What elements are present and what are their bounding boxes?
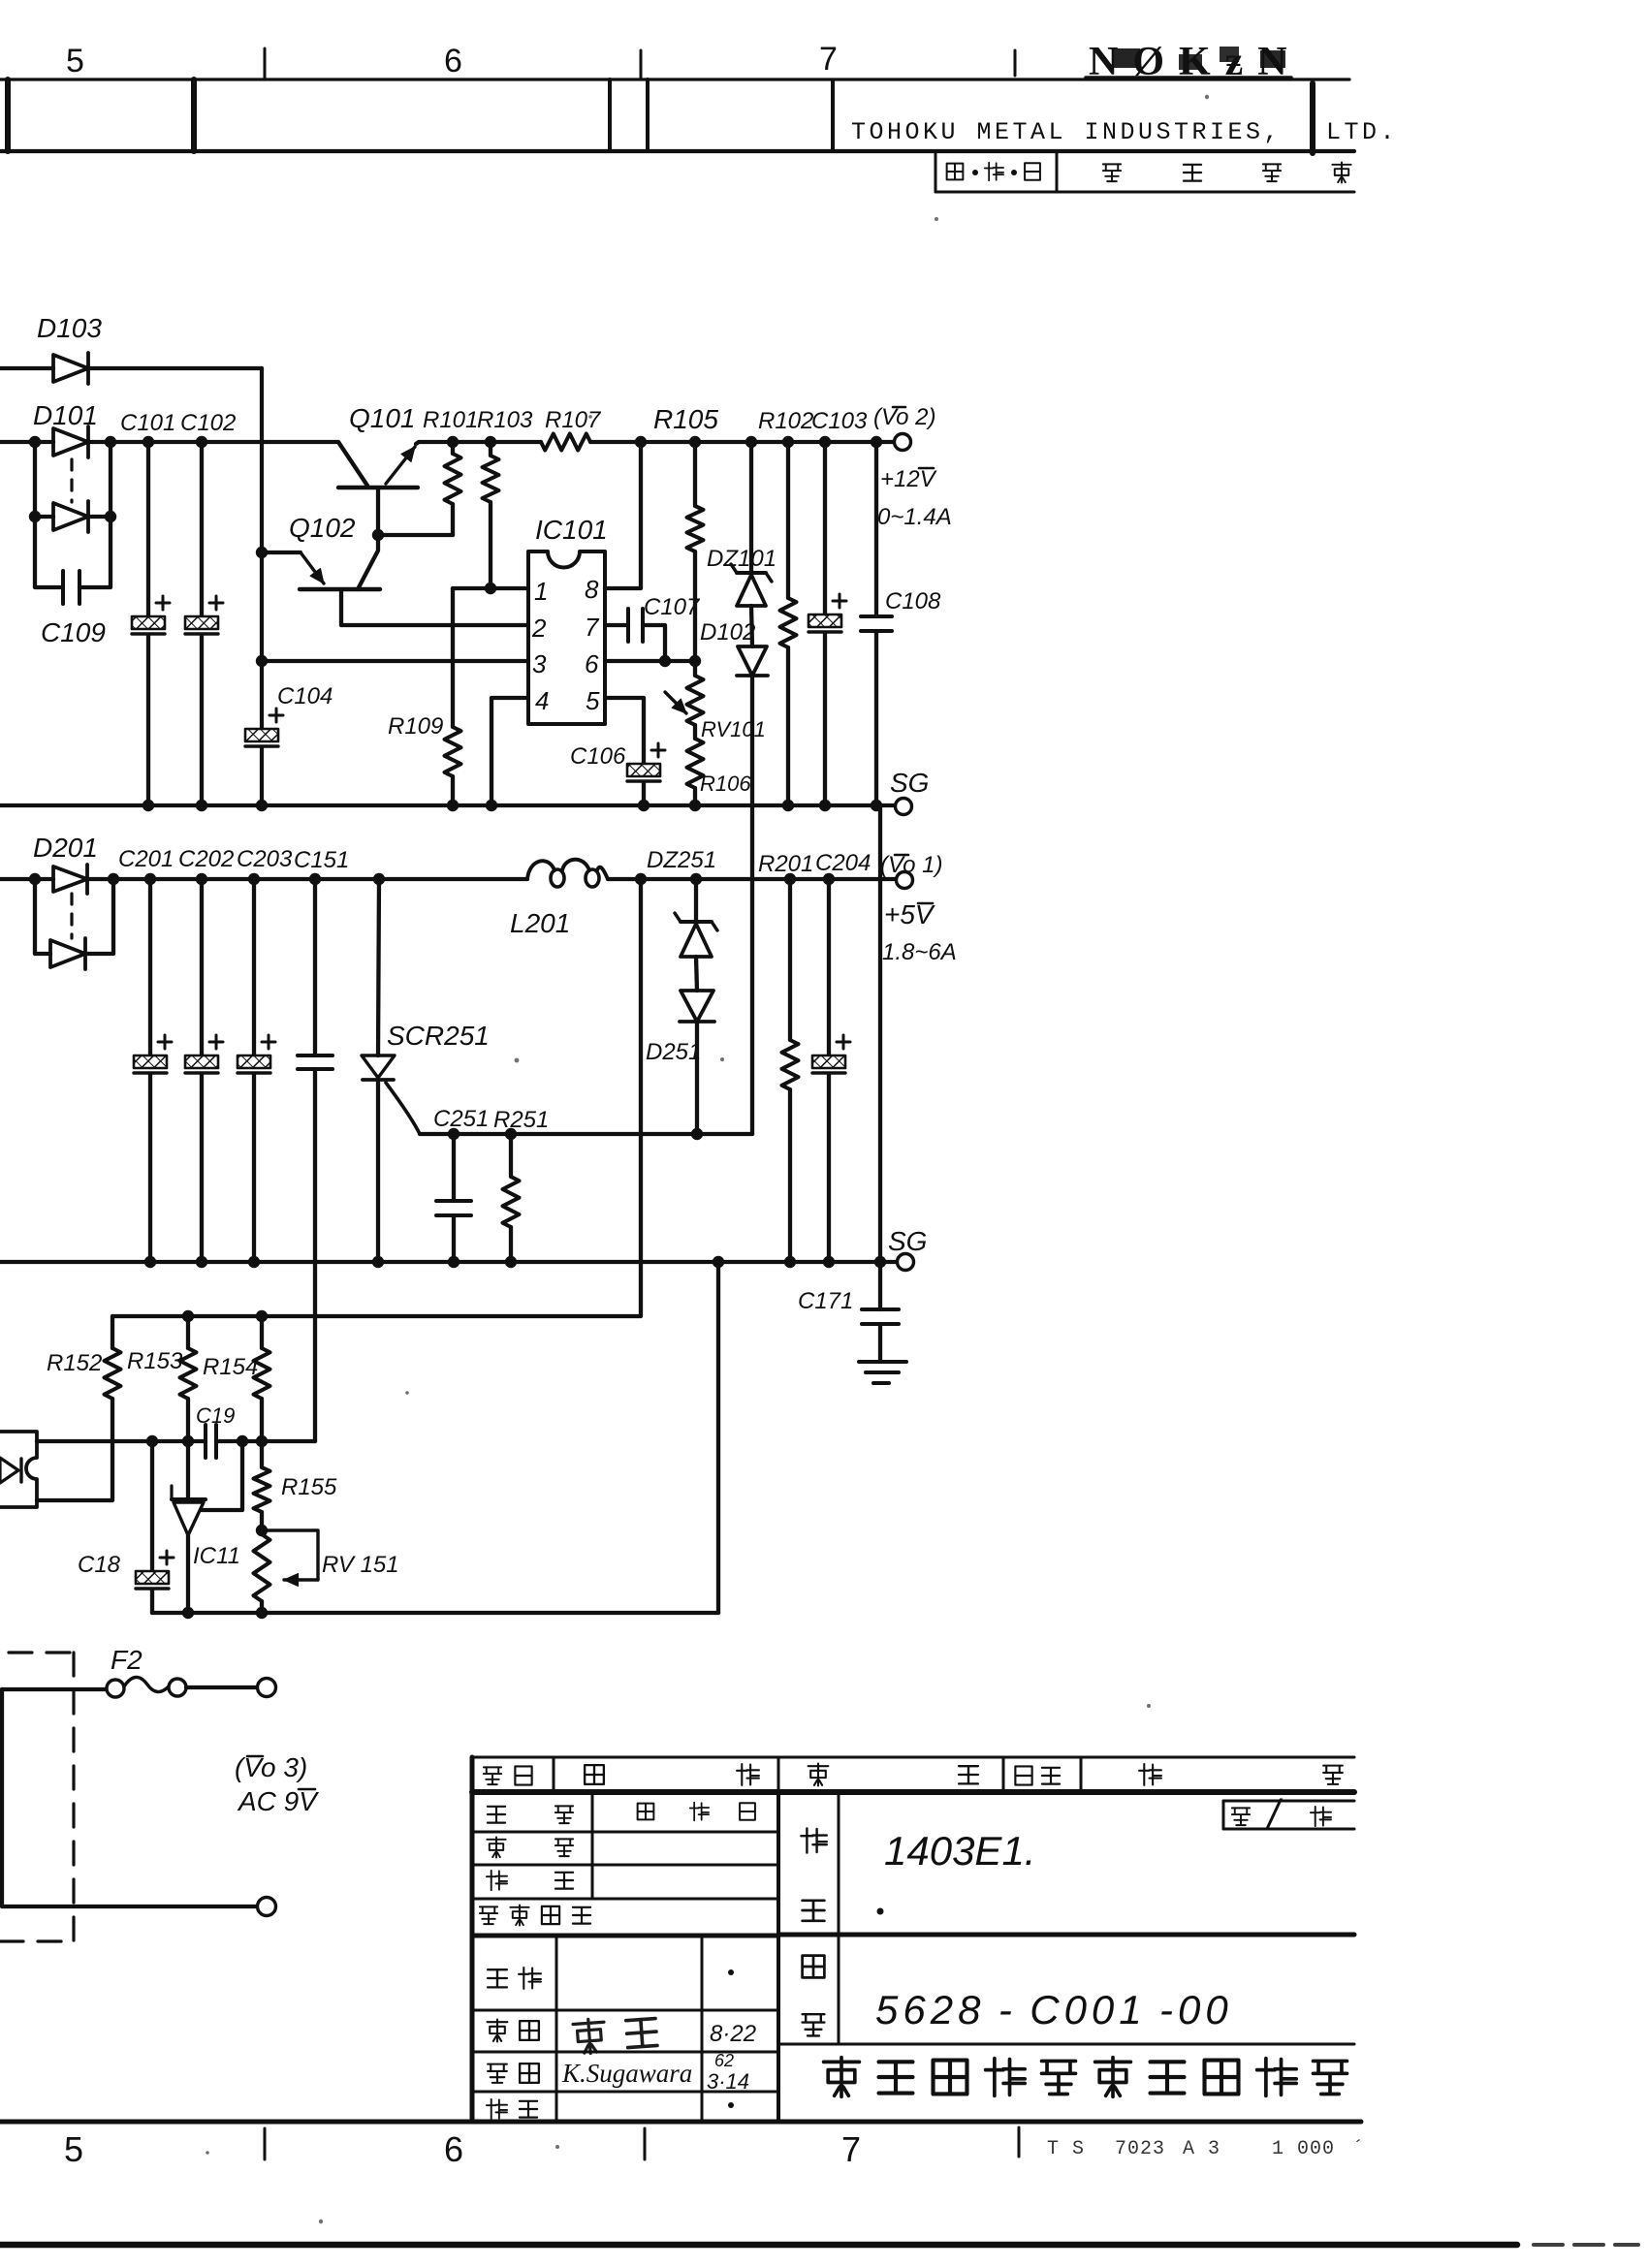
svg-text:D101: D101 [33, 400, 98, 430]
svg-text:6: 6 [444, 2129, 463, 2169]
svg-text:+12V: +12V [880, 466, 937, 492]
svg-text:(Vo 3): (Vo 3) [235, 1752, 307, 1782]
wire: IC pin4 to SG [491, 698, 528, 805]
svg-text:R152: R152 [47, 1350, 102, 1376]
company name 東北金属工業株式会社 [824, 2058, 860, 2096]
row labels 発行/年月日 [488, 1807, 505, 1823]
svg-text:C103: C103 [811, 408, 868, 434]
svg-text:6: 6 [585, 649, 599, 678]
capacitor C109 [61, 571, 65, 604]
sheet frame bottom line [0, 2120, 1361, 2125]
svg-text:R106: R106 [700, 772, 751, 796]
wire: C151 bottom down to feedback node (crosses buses) [313, 1069, 317, 1441]
header band bottom line [0, 149, 1354, 153]
sheet frame: header band top line [0, 78, 1349, 80]
wire: Q101 base junction to R101 bottom [378, 533, 453, 537]
svg-text:R153: R153 [127, 1348, 183, 1374]
wire: IC pin6 to R105 junction [605, 659, 695, 663]
svg-text:3: 3 [532, 649, 547, 678]
logo underline [1086, 76, 1291, 79]
検図 [488, 2020, 508, 2042]
revision strip headers (year-month-day / revision columns) [947, 164, 964, 180]
footer tick [1018, 2127, 1021, 2157]
+5V rail to L201 [87, 877, 527, 881]
title block outer [470, 1792, 475, 2122]
svg-text:5: 5 [586, 686, 600, 715]
svg-text:8: 8 [585, 575, 599, 604]
column tick [1014, 50, 1017, 76]
svg-text:IC101: IC101 [535, 515, 608, 545]
svg-text:C108: C108 [885, 588, 941, 614]
capacitor C101 line [146, 442, 150, 616]
wire: D102 down to SCR gate wire (crosses SG and +5V rails) [750, 676, 754, 1134]
wire: raw dc input to D103 [0, 366, 53, 370]
svg-text:T S 7023 A 3: T S 7023 A 3 [1047, 2138, 1220, 2160]
svg-text:R155: R155 [281, 1474, 337, 1500]
footer tick [644, 2128, 647, 2159]
column tick [264, 48, 267, 78]
svg-text:4: 4 [535, 686, 549, 715]
svg-text:D102: D102 [700, 619, 755, 646]
node C101 top [143, 436, 154, 448]
left return wire [2, 1689, 258, 1906]
parts-list row [472, 1756, 1354, 1759]
scan bottom edge line [0, 2242, 1517, 2249]
wire: IC pin8 up to +12V rail [605, 442, 641, 588]
SG bus (lower) [0, 1260, 897, 1264]
svg-text:RV101: RV101 [701, 717, 766, 741]
wire: raw dc input 2 to D101 [0, 440, 53, 444]
transformer dashed boundary [9, 1651, 71, 1654]
svg-text:1 000 ´: 1 000 ´ [1272, 2138, 1365, 2160]
SCR cathode to SG bus [376, 1080, 380, 1262]
svg-text:7: 7 [819, 41, 838, 78]
photocoupler (clipped at sheet edge) [0, 1432, 37, 1507]
feedback node wire [37, 1439, 206, 1443]
+5V raw rail from transformer [0, 877, 53, 881]
svg-text:R103: R103 [477, 407, 533, 433]
scan speckles [1205, 95, 1209, 99]
svg-text:D103: D103 [37, 313, 102, 343]
svg-text:0~1.4A: 0~1.4A [877, 504, 952, 530]
svg-text:R107: R107 [545, 407, 602, 433]
svg-text:R102: R102 [758, 408, 813, 434]
revision strip box [935, 151, 937, 192]
bottom control rail [152, 1611, 718, 1615]
diode D201 lower half [50, 940, 85, 967]
svg-text:R101: R101 [423, 407, 478, 433]
name column [838, 1792, 840, 2044]
node: +5V to sense line [635, 873, 647, 885]
svg-text:C106: C106 [570, 743, 626, 770]
left column rows [472, 1831, 778, 1834]
svg-text:D201: D201 [33, 833, 98, 863]
diode D101 (dual diode, upper) [53, 428, 88, 456]
svg-text:7: 7 [841, 2129, 861, 2169]
svg-text:C204: C204 [815, 850, 871, 876]
svg-text:5628 - C001 -00: 5628 - C001 -00 [875, 1987, 1233, 2032]
svg-text:7: 7 [585, 613, 600, 642]
wire: IC pin2 [341, 623, 528, 627]
svg-text:C202: C202 [178, 846, 234, 872]
diode D201 (dual, upper) [53, 866, 87, 892]
svg-text:C251: C251 [433, 1106, 489, 1132]
wire: D103 cathode to main bus corner [88, 366, 262, 370]
SCR gate lead [386, 1083, 420, 1134]
node: bus to Q102 base wire [256, 547, 268, 558]
svg-text:R251: R251 [493, 1107, 549, 1133]
earth ground [859, 1360, 906, 1364]
IC11 ref lead to C19 node [202, 1441, 242, 1510]
設計 [487, 2099, 507, 2119]
wire: main +raw rail to Q101 collector [88, 440, 338, 444]
svg-text:DZ251: DZ251 [647, 847, 716, 873]
svg-text:C101: C101 [120, 410, 175, 436]
svg-text:SG: SG [890, 768, 929, 798]
node: bus to IC pin3 wire [256, 655, 268, 667]
wire: top +12V rail with R107 [419, 440, 541, 444]
Q102 base lead to IC pin2 [339, 589, 343, 625]
wire: IC pin3 [262, 659, 528, 663]
svg-text:L201: L201 [510, 908, 570, 938]
単位 [487, 1837, 505, 1857]
承認 [488, 1969, 507, 1987]
svg-text:5: 5 [66, 43, 84, 79]
RV101 wiper arrow [665, 692, 686, 713]
diode D103 [53, 355, 88, 382]
capacitor C104 (electrolytic) [245, 729, 278, 741]
svg-text:C107: C107 [644, 594, 701, 620]
SG rail down right side [878, 805, 882, 1262]
Q101 base lead [376, 488, 380, 535]
svg-text:AC 9V: AC 9V [237, 1786, 319, 1816]
svg-text:62: 62 [714, 2051, 734, 2070]
svg-text:Q102: Q102 [289, 513, 356, 543]
一般公差 [480, 1906, 497, 1924]
column tick [640, 50, 643, 78]
SG bus (upper) [0, 803, 895, 807]
svg-text:8·22: 8·22 [710, 2021, 756, 2047]
svg-text:C201: C201 [118, 846, 174, 872]
diode D101 lower half [53, 503, 88, 530]
svg-text:C109: C109 [41, 617, 106, 647]
wire: IC pin1 [453, 586, 528, 590]
+5V rail after L201 [608, 877, 897, 881]
RV151 wiper link [262, 1530, 318, 1580]
svg-text:C102: C102 [180, 410, 236, 436]
svg-text:1.8~6A: 1.8~6A [882, 939, 957, 965]
sense line down to divider (crosses gate wire and SG bus) [112, 879, 641, 1316]
footer tick [264, 2128, 267, 2159]
svg-text:D251: D251 [646, 1039, 701, 1065]
svg-text:C203: C203 [237, 846, 293, 872]
svg-text:RV 151: RV 151 [322, 1552, 399, 1578]
svg-text:F2: F2 [111, 1645, 143, 1675]
svg-text:6: 6 [444, 43, 462, 79]
node C102 top [196, 436, 207, 448]
first edition box [1223, 1800, 1354, 1803]
製図 [488, 2064, 507, 2083]
svg-text:R105: R105 [653, 404, 718, 434]
svg-text:C151: C151 [294, 847, 349, 873]
terminal Vo3 a [258, 1679, 276, 1697]
svg-text:LTD.: LTD. [1326, 118, 1398, 146]
wire: IC pin5 to C106 [605, 698, 644, 764]
svg-text:IC11: IC11 [193, 1543, 240, 1569]
header band cell dividers [5, 79, 11, 151]
svg-text:5: 5 [64, 2129, 83, 2169]
svg-text:SG: SG [888, 1226, 927, 1256]
signature 検図 (handwritten) [573, 2015, 657, 2055]
svg-text:1: 1 [534, 577, 548, 606]
svg-text:R154: R154 [203, 1354, 258, 1380]
svg-text:R109: R109 [388, 713, 443, 740]
svg-text:Q101: Q101 [349, 403, 416, 433]
D101 parallel loop wires [35, 442, 63, 587]
svg-text:3·14: 3·14 [707, 2069, 749, 2094]
svg-text:C171: C171 [798, 1288, 853, 1314]
svg-text:DZ101: DZ101 [707, 546, 776, 572]
svg-text:K.Sugawara: K.Sugawara [561, 2059, 692, 2088]
wire: vertical raw bus (D103 net) down to C104 [260, 368, 264, 729]
svg-text:R201: R201 [758, 851, 813, 877]
degraded TOKIN logo stamp [1089, 40, 1302, 84]
SCR gate wire [420, 1132, 752, 1136]
terminal Vo3 b [258, 1898, 276, 1916]
dashed link of dual diode D101 [70, 459, 73, 502]
尺度 [487, 1871, 507, 1890]
svg-text:SCR251: SCR251 [387, 1021, 490, 1051]
wire: lower bus down to bottom control rail [713, 1256, 724, 1268]
svg-text:C18: C18 [78, 1552, 121, 1578]
wire: C104 to SG bus [260, 747, 264, 805]
svg-text:1403E1.: 1403E1. [884, 1828, 1035, 1874]
svg-text:C104: C104 [277, 683, 333, 709]
svg-text:2: 2 [531, 614, 547, 643]
wire: IC pin7 to C107 [605, 623, 628, 627]
svg-text:TOHOKU METAL INDUSTRIES,: TOHOKU METAL INDUSTRIES, [851, 118, 1282, 146]
capacitor C102 line [200, 442, 204, 616]
